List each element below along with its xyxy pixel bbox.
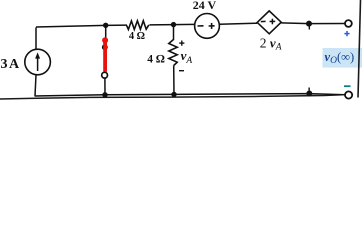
svg-text:24 V: 24 V — [193, 0, 217, 12]
node: junction dot bottom rail right with stub — [306, 91, 312, 97]
svg-text:3 A: 3 A — [1, 57, 21, 72]
minus sign inside 24V source — [198, 25, 204, 27]
svg-text:4 Ω: 4 Ω — [147, 54, 165, 66]
resistor R 4ohm horizontal — [127, 21, 149, 30]
red short-circuit wire (highlighted) — [103, 41, 107, 72]
node: junction dot top rail right with stub — [306, 21, 312, 27]
voltage source V1 24V circle — [195, 14, 220, 39]
svg-text:vO(∞): vO(∞) — [325, 50, 355, 66]
wire: top-left vertical from top rail to current source — [35, 27, 37, 49]
wire: from top rail dot down to vertical resistor — [173, 25, 175, 40]
label + (blue, output port top) — [344, 31, 349, 36]
node: junction dot top rail above red branch — [103, 23, 108, 28]
terminal: open circle bottom right — [345, 91, 352, 98]
wire: bottom-left vertical from current source to bottom rail — [35, 75, 36, 96]
minus sign inside diamond — [261, 20, 266, 22]
node: junction dot bottom rail below red branch — [102, 92, 107, 97]
wire: top rail between resistor and 24V source — [149, 23, 194, 26]
terminal: open circle top right — [345, 20, 352, 27]
wire: bottom rail — [35, 94, 345, 96]
arrow inside current source — [37, 57, 39, 72]
figure right border — [358, 0, 361, 98]
wire: stub from top rail into red branch — [105, 25, 107, 41]
node: black dot mid red branch (under red bar) — [102, 44, 108, 50]
highlight box vO(inf) — [323, 48, 362, 68]
wire: from vertical resistor down to bottom rail — [173, 66, 175, 95]
figure bottom rule — [0, 95, 342, 99]
resistor R 4ohm vertical — [169, 40, 177, 66]
label + of vA — [179, 41, 184, 46]
plus sign inside diamond — [270, 19, 276, 25]
dependent source 2vA diamond — [257, 11, 281, 34]
red dot top of short — [102, 37, 108, 43]
terminal: open circle bottom of red branch — [102, 72, 108, 78]
svg-text:vA: vA — [181, 48, 193, 66]
svg-text:4 Ω: 4 Ω — [129, 31, 145, 42]
plus sign inside 24V source — [209, 23, 215, 29]
node: junction dot bottom rail below vertical resistor — [171, 92, 176, 97]
svg-text:2 vA: 2 vA — [260, 36, 282, 53]
label - of vA — [179, 70, 184, 72]
node: junction dot top rail at vertical resistor — [171, 22, 176, 27]
wire: top rail left segment — [36, 25, 127, 27]
wire: top rail from diamond to right terminal — [281, 22, 345, 25]
wire: from red-branch terminal down to bottom rail — [104, 78, 106, 95]
current source I1 3A circle — [25, 49, 51, 75]
wire: top rail between 24V source and diamond — [219, 23, 257, 24]
label - (teal, output port bottom) — [344, 85, 351, 87]
